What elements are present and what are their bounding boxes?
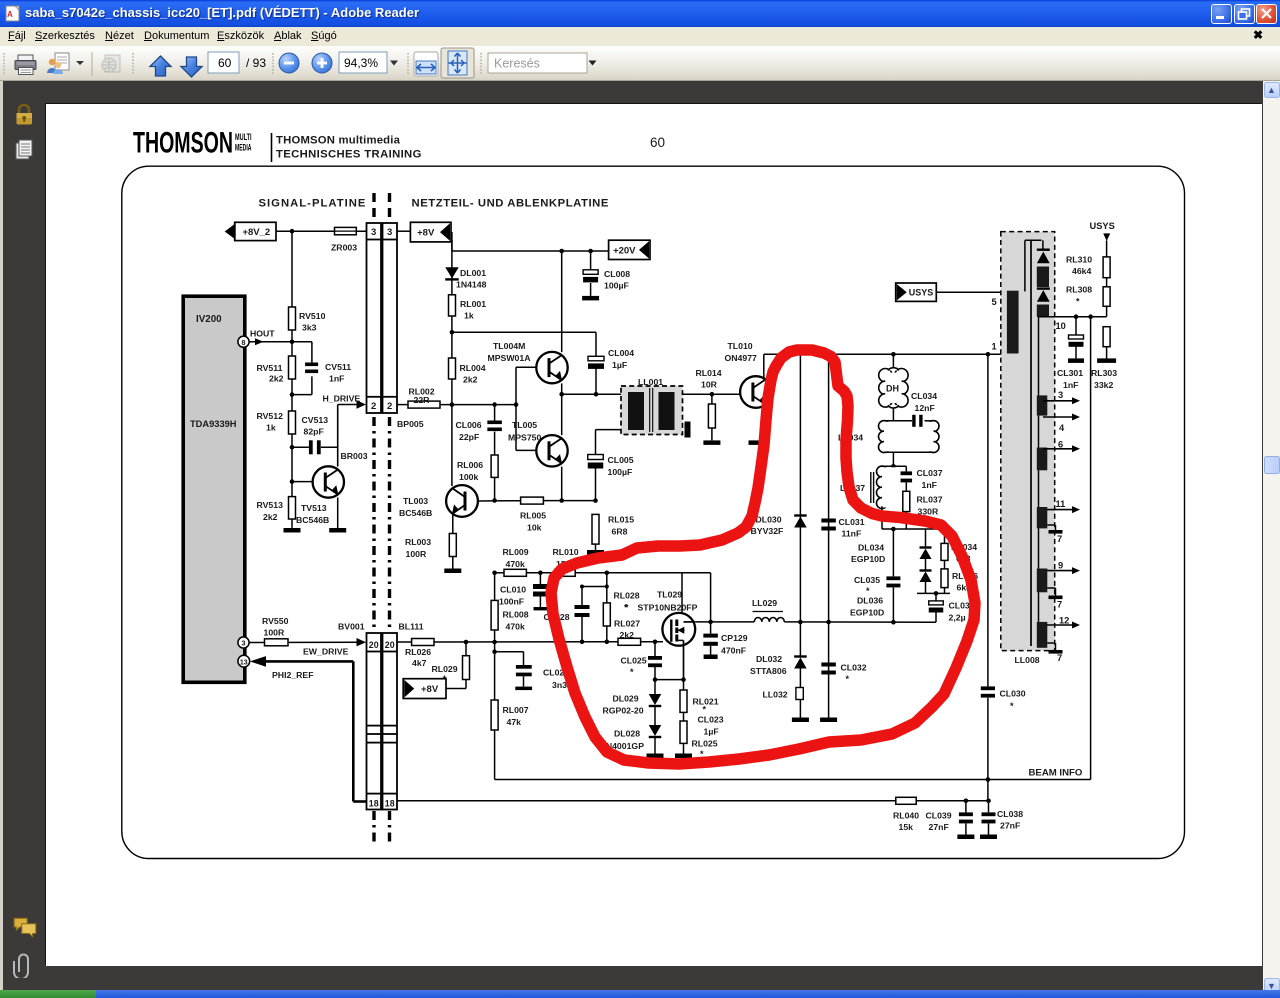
resistor RL021: [680, 680, 719, 715]
svg-text:RL027: RL027: [614, 619, 640, 629]
transformer LL008 body: [1001, 232, 1055, 651]
nav down arrow: [181, 57, 202, 77]
svg-text:EW_DRIVE: EW_DRIVE: [303, 647, 349, 657]
resistor RL028: [603, 587, 639, 642]
resistor RL034 6k8: [941, 529, 977, 564]
resistor RL003 100R: [405, 534, 456, 569]
svg-text:1nF: 1nF: [922, 480, 937, 490]
ground DL028: [647, 754, 664, 759]
svg-text:12nF: 12nF: [915, 403, 935, 413]
resistor RL006 100k: [457, 455, 498, 501]
svg-text:2: 2: [371, 401, 376, 412]
svg-text:RL010: RL010: [553, 547, 579, 557]
svg-text:RL014: RL014: [696, 368, 722, 378]
ground CL038: [980, 835, 997, 840]
svg-text:/ 93: / 93: [246, 56, 266, 70]
flag USYS right: [1090, 221, 1115, 257]
svg-text:1nF: 1nF: [329, 374, 344, 384]
search box: [488, 53, 587, 73]
svg-text:RL040: RL040: [893, 811, 919, 821]
svg-text:TL004M: TL004M: [493, 341, 525, 351]
svg-text:CL031: CL031: [839, 517, 865, 527]
wire CL030 bus: [986, 354, 991, 801]
ground RL015: [587, 550, 604, 555]
svg-text:RL003: RL003: [405, 537, 431, 547]
svg-text:47k: 47k: [507, 717, 522, 727]
connector BV001/BL111 (pins 20/20 and 18/18): [367, 633, 398, 810]
diode DL001 1N4148: [445, 232, 486, 295]
diode DL034 EGP10D: [851, 529, 932, 564]
svg-text:60: 60: [650, 135, 665, 150]
svg-text:CP129: CP129: [721, 633, 748, 643]
IC IV200 TDA9339H: [183, 296, 245, 682]
connector BP005 (pins 3/3 and 2/2): [367, 223, 398, 413]
svg-text:DL036: DL036: [857, 596, 883, 606]
wire beam info right bus: [1090, 317, 1092, 780]
svg-text:BP005: BP005: [397, 419, 424, 429]
inductor LL032: [763, 688, 804, 718]
svg-text:100R: 100R: [406, 549, 427, 559]
svg-text:10R: 10R: [701, 380, 718, 390]
resistor RV513 2k2: [257, 447, 296, 528]
node LL034/LL037: [891, 452, 896, 468]
svg-text:3n3: 3n3: [552, 680, 567, 690]
label BEAM INFO: [1029, 767, 1083, 778]
resistor RL008 470k: [491, 573, 529, 780]
wire bias rail: [492, 571, 710, 622]
svg-text:IV200: IV200: [196, 314, 222, 325]
svg-text:1N4148: 1N4148: [456, 280, 487, 290]
svg-text:6: 6: [1058, 440, 1063, 450]
resistor RV512 1k: [257, 395, 296, 448]
svg-text:9: 9: [1058, 561, 1063, 571]
wire diode tie: [917, 591, 950, 596]
svg-text:3: 3: [241, 639, 245, 648]
transistor TL004M MPSW01A: [488, 251, 568, 450]
transistor TL010 ON4977: [725, 341, 772, 440]
svg-text:CV513: CV513: [302, 415, 329, 425]
svg-text:BC546B: BC546B: [296, 515, 329, 525]
svg-text:7: 7: [1057, 600, 1062, 610]
node RV511/RV512: [290, 392, 295, 397]
diode DL028 1N4001GP: [601, 725, 661, 754]
svg-text:TECHNISCHES TRAINING: TECHNISCHES TRAINING: [276, 149, 422, 161]
fit width icon: [414, 52, 438, 76]
capacitor CL006 22pF: [456, 405, 502, 455]
svg-text:TDA9339H: TDA9339H: [190, 419, 237, 429]
wire H drive line: [397, 402, 518, 407]
transistor TL005 MPS750: [508, 394, 568, 503]
diode DL030 BYV32F: [751, 515, 807, 537]
svg-text:DL001: DL001: [460, 268, 486, 278]
svg-text:MULTI: MULTI: [235, 132, 252, 142]
svg-text:15k: 15k: [899, 822, 914, 832]
label BV001: [338, 622, 365, 632]
svg-text:+8V: +8V: [417, 228, 435, 239]
svg-text:60: 60: [218, 56, 232, 70]
svg-text:RL007: RL007: [503, 705, 529, 715]
svg-text:CL004: CL004: [608, 348, 634, 358]
svg-text:RL004: RL004: [460, 363, 486, 373]
svg-text:7: 7: [1057, 653, 1062, 663]
resistor RL010 150k: [553, 547, 579, 576]
wire EW_DRIVE arrow: [303, 638, 366, 657]
diode DL029 RGP02-20: [603, 680, 662, 725]
svg-text:RL015: RL015: [608, 515, 634, 525]
svg-text:TL010: TL010: [728, 341, 753, 351]
coil LL037: [840, 466, 906, 529]
ground RL014: [703, 440, 720, 445]
svg-text:LL032: LL032: [763, 690, 788, 700]
svg-text:*: *: [846, 674, 850, 684]
capacitor CL033 2,2uF: [929, 593, 975, 622]
svg-text:3: 3: [387, 227, 392, 238]
svg-text:LL029: LL029: [752, 598, 777, 608]
fit page icon (active): [441, 48, 474, 78]
svg-text:2: 2: [387, 401, 392, 412]
resistor RL026 4k7: [405, 639, 434, 669]
svg-text:470nF: 470nF: [721, 646, 746, 656]
capacitor CL027 3n3: [492, 649, 569, 690]
svg-text:SIGNAL-PLATINE: SIGNAL-PLATINE: [259, 198, 367, 210]
wire source tie: [653, 677, 686, 682]
svg-text:DL029: DL029: [613, 694, 639, 704]
svg-text:CL006: CL006: [456, 420, 482, 430]
svg-text:46k4: 46k4: [1072, 266, 1091, 276]
title NETZTEIL- UND ABLENKPLATINE: [412, 198, 609, 210]
ground LL032: [792, 718, 809, 723]
wire +8V_2 rail: [276, 229, 367, 234]
svg-text:82pF: 82pF: [304, 427, 324, 437]
svg-text:100µF: 100µF: [608, 467, 633, 477]
ground TV513 emitter: [329, 528, 346, 533]
svg-text:CV511: CV511: [325, 362, 351, 372]
label BP005: [397, 419, 424, 429]
svg-text:2k2: 2k2: [620, 630, 635, 640]
svg-text:1nF: 1nF: [1063, 380, 1078, 390]
capacitor CL004 1uF: [588, 348, 634, 394]
capacitor CL030: [981, 686, 1026, 711]
svg-text:BL111: BL111: [399, 622, 424, 632]
svg-text:+8V_2: +8V_2: [242, 227, 270, 238]
svg-text:20: 20: [369, 640, 379, 650]
svg-text:*: *: [625, 603, 629, 613]
inductor LL029: [752, 598, 784, 622]
svg-text:NETZTEIL- UND ABLENKPLATINE: NETZTEIL- UND ABLENKPLATINE: [412, 198, 609, 210]
wire PHI2_REF: [250, 656, 367, 801]
node RL001 output: [450, 330, 455, 335]
svg-text:H_DRIVE: H_DRIVE: [323, 394, 361, 404]
svg-text:RV510: RV510: [299, 311, 326, 321]
svg-text:RL001: RL001: [460, 299, 486, 309]
svg-text:27nF: 27nF: [1000, 821, 1020, 831]
svg-text:11nF: 11nF: [842, 529, 862, 539]
svg-text:CL301: CL301: [1057, 368, 1083, 378]
share icon: [47, 53, 69, 74]
svg-text:4: 4: [1059, 423, 1065, 433]
svg-text:RL025: RL025: [692, 739, 718, 749]
svg-text:11: 11: [1056, 499, 1066, 509]
svg-text:TL003: TL003: [403, 496, 428, 506]
ground RV513: [284, 528, 301, 533]
svg-text:100nF: 100nF: [499, 597, 524, 607]
wire DH branch: [892, 354, 894, 368]
svg-text:RV511: RV511: [257, 363, 283, 373]
wire CL004 feed rail: [452, 332, 596, 356]
wire snubber branch CL031: [828, 354, 830, 717]
svg-text:2k2: 2k2: [263, 512, 278, 522]
diode DL036 EGP10D: [850, 559, 932, 618]
resistor RL015 6R8: [592, 514, 634, 550]
svg-text:RL310: RL310: [1066, 255, 1092, 265]
resistor RL005 10k: [520, 497, 598, 532]
svg-text:RL029: RL029: [432, 664, 458, 674]
pin label 1: [992, 342, 997, 352]
svg-text:CL032: CL032: [841, 663, 867, 673]
capacitor CL037 1nF: [901, 466, 943, 491]
svg-text:22pF: 22pF: [459, 432, 479, 442]
wire HOUT: [249, 339, 312, 344]
svg-text:DL028: DL028: [614, 729, 640, 739]
wire deflection line: [695, 620, 936, 625]
svg-text:12: 12: [1059, 616, 1069, 626]
resistor RV550 100R: [249, 616, 358, 646]
svg-text:BR003: BR003: [341, 451, 368, 461]
pin 8 HOUT: [238, 328, 275, 347]
nav up arrow: [150, 56, 171, 76]
svg-text:2k2: 2k2: [463, 375, 478, 385]
capacitor CL023 1uF / resistor RL025: [680, 712, 724, 759]
svg-text:Keresés: Keresés: [494, 57, 540, 71]
svg-text:THOMSON multimedia: THOMSON multimedia: [276, 135, 401, 147]
svg-text:BC546B: BC546B: [399, 508, 432, 518]
svg-text:RL026: RL026: [405, 647, 431, 657]
resistor RV511 2k2: [257, 342, 296, 395]
resistor RL036 6k8: [941, 560, 978, 593]
LL008 secondary windings and pins: [1037, 390, 1080, 663]
red marker annotation loop: [551, 350, 975, 764]
capacitor CL038 27nF: [982, 801, 1024, 835]
capacitor CL008 100uF: [583, 251, 630, 296]
pin 13: [238, 655, 250, 667]
svg-text:22R: 22R: [414, 395, 431, 405]
capacitor CL035: [854, 529, 900, 622]
svg-text:CL010: CL010: [500, 585, 526, 595]
zoom in: [312, 53, 332, 73]
svg-text:CL030: CL030: [1000, 689, 1026, 699]
resistor RL029: [432, 642, 470, 689]
flag +8V bottom: [403, 679, 446, 699]
flag +20V: [609, 240, 650, 259]
label LL008: [1015, 655, 1040, 665]
svg-text:2,2µ: 2,2µ: [949, 613, 966, 623]
svg-text:RL006: RL006: [457, 460, 483, 470]
svg-text:+20V: +20V: [613, 245, 636, 256]
resistor RL037 330R: [903, 491, 943, 529]
svg-text:1k: 1k: [464, 311, 474, 321]
svg-text:470k: 470k: [506, 559, 525, 569]
svg-text:1µF: 1µF: [704, 727, 719, 737]
ground RL003: [444, 569, 461, 574]
globe doc icon (disabled): [102, 55, 120, 72]
ground RL025: [675, 754, 692, 759]
svg-text:MEDIA: MEDIA: [235, 143, 252, 153]
svg-text:BV001: BV001: [338, 622, 365, 632]
zoom out: [279, 53, 299, 73]
svg-text:HOUT: HOUT: [250, 328, 275, 338]
svg-text:*: *: [866, 586, 870, 596]
svg-text:100k: 100k: [459, 472, 478, 482]
pin label 5: [992, 297, 997, 307]
svg-text:13: 13: [240, 659, 248, 666]
svg-text:3: 3: [371, 227, 376, 238]
page number 60: [650, 135, 665, 150]
svg-text:10k: 10k: [527, 523, 542, 533]
svg-text:18: 18: [369, 799, 379, 809]
flag USYS: [896, 283, 937, 301]
svg-text:*: *: [1076, 297, 1080, 307]
svg-text:27nF: 27nF: [929, 822, 949, 832]
ground CL032: [820, 718, 837, 723]
printer icon: [15, 55, 36, 75]
capacitor CL025: [621, 642, 663, 680]
svg-text:7: 7: [1057, 534, 1062, 544]
svg-text:6R8: 6R8: [612, 527, 628, 537]
svg-text:3k3: 3k3: [302, 323, 317, 333]
capacitor CL039 27nF: [926, 801, 973, 835]
capacitor CL031 11nF: [821, 517, 864, 539]
resistor RL308: [1066, 285, 1110, 317]
capacitor CL028: [544, 573, 609, 642]
svg-text:TL029: TL029: [657, 590, 682, 600]
svg-text:+8V: +8V: [421, 684, 439, 695]
svg-text:3: 3: [1058, 390, 1063, 400]
schematic outer rounded border: [122, 166, 1185, 858]
resistor RL009 470k: [503, 547, 529, 576]
resistor RL027 2k2: [614, 619, 641, 646]
resistor RL002 22R: [408, 387, 440, 409]
svg-text:STP10NB20FP: STP10NB20FP: [638, 603, 698, 613]
resistor RL310 46k4: [1066, 255, 1110, 287]
svg-text:CL035: CL035: [854, 575, 880, 585]
svg-text:A: A: [7, 10, 13, 19]
svg-text:RL028: RL028: [614, 591, 640, 601]
wire flyback rail (pin 1): [764, 352, 1007, 357]
svg-text:THOMSON: THOMSON: [133, 127, 233, 160]
svg-text:RGP02-20: RGP02-20: [603, 706, 644, 716]
diode DL032 STTA806: [750, 654, 807, 687]
svg-text:100µF: 100µF: [604, 281, 629, 291]
zoom box: [339, 52, 387, 73]
resistor RL014 10R: [696, 368, 722, 440]
svg-text:RV550: RV550: [262, 616, 289, 626]
wire LL008 pin10 rail: [1039, 314, 1107, 395]
svg-text:DL030: DL030: [756, 515, 782, 525]
LL008 HV diode stack: [1037, 240, 1050, 317]
svg-text:BEAM INFO: BEAM INFO: [1029, 767, 1083, 778]
svg-text:RV513: RV513: [257, 500, 284, 510]
svg-text:RL005: RL005: [520, 511, 546, 521]
transistor TL003 BC546B: [399, 405, 521, 534]
LL008 primary winding: [1007, 240, 1042, 353]
svg-text:CL038: CL038: [997, 809, 1023, 819]
svg-text:ZR003: ZR003: [331, 243, 357, 253]
svg-text:94,3%: 94,3%: [344, 56, 378, 70]
svg-text:TV513: TV513: [301, 503, 327, 513]
svg-text:8: 8: [241, 338, 245, 347]
svg-text:CL039: CL039: [926, 811, 952, 821]
svg-text:STTA806: STTA806: [750, 666, 787, 676]
capacitor CL005 100uF: [588, 430, 634, 501]
svg-text:RL308: RL308: [1066, 285, 1092, 295]
wire +20V rail: [452, 240, 609, 253]
svg-text:DL032: DL032: [756, 654, 782, 664]
label BL111: [399, 622, 424, 632]
svg-text:MPS750: MPS750: [508, 433, 541, 443]
svg-text:*: *: [1010, 701, 1014, 711]
svg-text:TL005: TL005: [512, 420, 537, 430]
wire bottom net: [397, 799, 991, 804]
capacitor CV511 1nF: [292, 342, 351, 395]
ground RL303: [1097, 358, 1116, 363]
wire beam info bottom rail: [495, 779, 1091, 781]
pin 3: [238, 637, 249, 648]
wire RV510 branch: [291, 231, 293, 342]
title SIGNAL-PLATINE: [259, 198, 367, 210]
svg-text:RL009: RL009: [503, 547, 529, 557]
svg-text:USYS: USYS: [909, 288, 934, 298]
fuse ZR003: [331, 227, 357, 252]
svg-text:PHI2_REF: PHI2_REF: [272, 670, 314, 680]
wire LL001 to TL010: [683, 392, 741, 397]
svg-text:*: *: [703, 705, 707, 715]
svg-text:RL037: RL037: [917, 495, 943, 505]
svg-text:DL034: DL034: [858, 543, 884, 553]
wire USYS to LL008 pin5: [936, 291, 1007, 293]
capacitor CL032: [821, 663, 866, 685]
svg-text:CL005: CL005: [608, 455, 634, 465]
svg-text:ON4977: ON4977: [725, 353, 758, 363]
resistor RL001 1k: [449, 295, 487, 333]
svg-text:RL303: RL303: [1091, 368, 1117, 378]
svg-text:1: 1: [992, 342, 997, 352]
svg-text:EGP10D: EGP10D: [851, 554, 885, 564]
svg-text:MPSW01A: MPSW01A: [488, 353, 532, 363]
resistor RL303 33k2: [1091, 327, 1117, 390]
capacitor CL034 12nF: [911, 391, 937, 413]
svg-text:RL008: RL008: [503, 610, 529, 620]
resistor RL007 47k: [491, 700, 529, 730]
coil LL034 with CL034: [838, 408, 939, 453]
wire damper branch DL030: [799, 354, 801, 656]
svg-text:CL023: CL023: [698, 715, 724, 725]
svg-text:CL008: CL008: [604, 269, 630, 279]
page number box: [208, 52, 239, 73]
flag +8V_2: [225, 222, 276, 240]
svg-text:2k2: 2k2: [269, 374, 284, 384]
coil DH: [879, 368, 908, 408]
svg-text:470k: 470k: [506, 622, 525, 632]
page header THOMSON logo: [133, 127, 422, 163]
svg-text:RV512: RV512: [257, 411, 284, 421]
resistor RV510 3k3: [289, 307, 326, 333]
wire LL037 bottom tie: [882, 527, 945, 532]
capacitor CL301 1nF: [1057, 317, 1084, 390]
svg-text:BYV32F: BYV32F: [751, 526, 784, 536]
capacitor CL010 100nF: [499, 573, 549, 611]
svg-text:5: 5: [992, 297, 997, 307]
svg-text:EGP10D: EGP10D: [850, 608, 884, 618]
